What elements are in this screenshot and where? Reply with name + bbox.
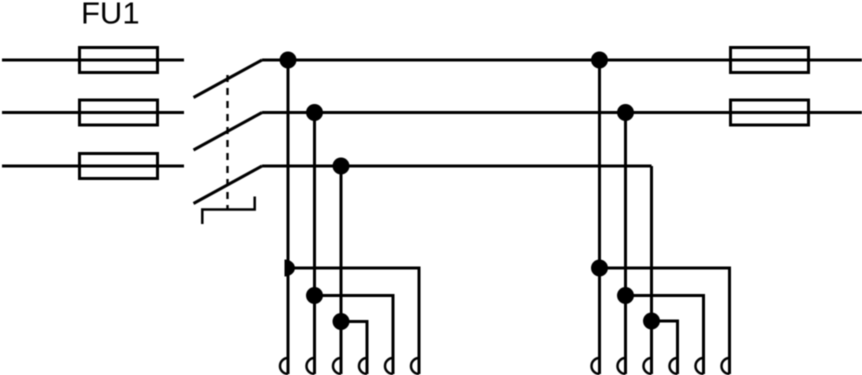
wire phase L1 incoming	[2, 59, 184, 62]
terminal socket 2 left	[307, 358, 315, 374]
junction dot right branch C	[643, 313, 660, 330]
terminal socket 5 right	[696, 358, 704, 374]
wire phase L2 incoming	[2, 111, 184, 114]
terminal socket 3 right	[644, 358, 652, 374]
terminal socket 3 left	[333, 358, 341, 374]
junction dot L2 bus left	[306, 104, 323, 121]
terminal socket 2 right	[618, 358, 626, 374]
junction dot L3 bus left	[333, 158, 350, 175]
switch QS blade pole 1	[194, 60, 263, 98]
wire branch right B	[626, 296, 704, 375]
wire drop left L2	[313, 113, 316, 375]
terminal socket 4 left	[359, 358, 367, 374]
switch QS blade pole 2	[194, 113, 263, 151]
junction dot right branch A	[591, 260, 608, 277]
terminal socket 6 right	[722, 358, 730, 374]
junction dot L1 bus left	[280, 52, 297, 69]
terminal socket 1 left	[280, 358, 288, 374]
terminal socket 6 left	[411, 358, 419, 374]
terminal socket 1 right	[592, 358, 600, 374]
wire phase L3 incoming	[2, 165, 184, 168]
junction dot L2 bus right	[617, 104, 634, 121]
terminal socket 5 left	[385, 358, 393, 374]
fuse FU2 pole 2	[731, 100, 809, 125]
terminal socket 4 right	[670, 358, 678, 374]
switch QS handle	[202, 197, 254, 225]
wire drop left L1	[287, 60, 290, 374]
wire drop right L1	[598, 60, 601, 374]
wire branch left B	[315, 296, 394, 375]
svg-text:FU1: FU1	[81, 0, 140, 31]
wire bus L3	[262, 165, 652, 168]
fuse FU1 pole 1	[80, 48, 158, 73]
fuse FU1 pole 3	[80, 154, 158, 179]
wire bus L2	[262, 111, 862, 114]
junction dot L1 bus right	[591, 52, 608, 69]
junction dot left branch B	[306, 287, 323, 304]
junction dot right branch B	[617, 287, 634, 304]
wire branch left C	[341, 322, 367, 375]
wire drop left L3	[340, 166, 343, 374]
fuse FU2 pole 1	[731, 48, 809, 73]
wire drop right L2	[624, 113, 627, 375]
switch QS linkage (dashed)	[226, 75, 228, 209]
wire bus L1	[262, 59, 862, 62]
fuse FU1 pole 2	[80, 100, 158, 125]
wire drop right L3 (corner from bus)	[650, 166, 653, 374]
wire branch left A	[288, 268, 419, 374]
junction dot left branch C	[333, 313, 350, 330]
junction dot left branch A (half-disc)	[285, 260, 296, 277]
wire branch right C	[652, 321, 678, 374]
wire branch right A	[600, 268, 730, 374]
switch QS blade pole 3	[194, 166, 263, 204]
